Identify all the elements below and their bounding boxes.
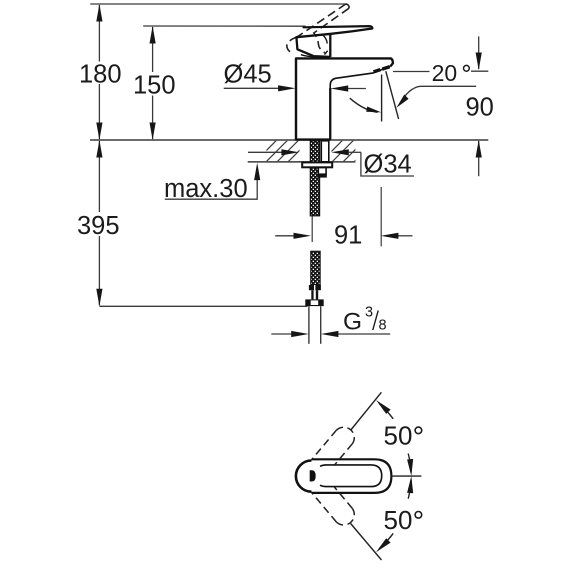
counter top line bbox=[90, 139, 488, 141]
shank tube right bbox=[321, 141, 329, 162]
handle base right edge bbox=[329, 34, 331, 57]
hose end block bbox=[311, 290, 318, 299]
upper dashed lever bbox=[313, 427, 355, 465]
counter bottom line bbox=[248, 161, 356, 163]
knob mark bbox=[310, 470, 316, 481]
dimension G3/8 bbox=[271, 331, 390, 337]
lower dashed lever bbox=[313, 487, 355, 525]
dashed handle raised bbox=[287, 4, 349, 53]
dimension 395 vertical line bbox=[96, 140, 102, 306]
dimension 180 vertical line bbox=[96, 4, 102, 140]
dimension 90 vertical line bbox=[476, 36, 482, 176]
handle underside from base to tip bbox=[296, 29, 372, 38]
hose end nut bbox=[305, 299, 323, 306]
knob circle bbox=[296, 461, 327, 492]
neck curve bbox=[323, 35, 327, 44]
svg-text:150: 150 bbox=[133, 72, 176, 100]
extension line 150 ref bbox=[143, 25, 305, 27]
nut under washer bbox=[318, 168, 326, 175]
extension line outlet vertical bbox=[380, 187, 382, 246]
centerline 0 deg bbox=[391, 475, 421, 477]
lower ray 50 deg bbox=[351, 524, 382, 561]
svg-text:Ø34: Ø34 bbox=[364, 150, 412, 178]
svg-text:180: 180 bbox=[79, 60, 122, 88]
shank braided hose upper bbox=[310, 141, 319, 216]
counter hatching right bbox=[321, 140, 376, 162]
svg-text:50: 50 bbox=[384, 421, 413, 451]
braided hose lower bbox=[311, 251, 320, 285]
washer under counter bbox=[302, 162, 332, 167]
extension line 395 bottom bbox=[99, 305, 307, 307]
handle base bbox=[296, 37, 330, 57]
label D34 with leader bbox=[248, 149, 414, 176]
lever stadium outer bbox=[312, 459, 392, 493]
extension line top (180 ref) bbox=[90, 3, 347, 5]
dimension 91 bbox=[275, 233, 412, 239]
svg-text:max.30: max.30 bbox=[164, 175, 248, 203]
svg-text:G: G bbox=[343, 309, 362, 336]
connection tube G3/8 bbox=[309, 306, 321, 344]
svg-text:91: 91 bbox=[334, 222, 362, 250]
svg-text:3: 3 bbox=[365, 304, 373, 320]
label max.30 with leader bbox=[165, 163, 260, 200]
dimension D45 arrows bbox=[224, 85, 366, 91]
arc upper 50 bbox=[408, 454, 411, 473]
water stream right line bbox=[386, 71, 399, 119]
faucet body bbox=[296, 58, 393, 139]
hose end collar bbox=[309, 285, 321, 290]
svg-text:90: 90 bbox=[466, 93, 494, 121]
extension line outlet level bbox=[393, 71, 430, 73]
svg-text:8: 8 bbox=[379, 318, 387, 334]
aerator bbox=[374, 67, 390, 72]
dimension 150 vertical line bbox=[150, 26, 156, 140]
lever stadium inner bbox=[320, 465, 382, 487]
arc lower 50 bbox=[408, 480, 411, 499]
svg-text:50: 50 bbox=[384, 505, 413, 535]
upper ray 50 deg bbox=[351, 392, 382, 430]
water stream left line bbox=[381, 75, 383, 122]
hose centerline stub bbox=[311, 216, 313, 243]
svg-text:395: 395 bbox=[77, 212, 120, 240]
svg-text:Ø45: Ø45 bbox=[224, 61, 272, 89]
svg-text:20: 20 bbox=[432, 60, 458, 86]
counter hatching left bbox=[244, 140, 321, 162]
arc arrow spray bbox=[350, 98, 378, 112]
handle lever top edge bbox=[304, 26, 373, 28]
